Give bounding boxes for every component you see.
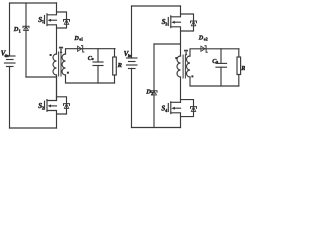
primary dot	[175, 57, 177, 59]
primary dot	[50, 54, 52, 56]
wire top rail left circuit	[10, 2, 57, 4]
svg-text:T: T	[59, 45, 63, 55]
svg-text:2: 2	[151, 91, 153, 96]
wire secondary top lead	[190, 49, 239, 56]
transistor S2 (MOSFET)	[45, 77, 57, 128]
wire left vertical right circuit (Vin- lead)	[131, 69, 133, 128]
wire primary bottom to S4 drain	[180, 77, 182, 102]
wire clamp branch vertical (top)	[25, 3, 27, 77]
svg-text:T: T	[184, 48, 188, 57]
label T (left)	[59, 45, 63, 55]
label Co2	[212, 58, 218, 65]
source Vin battery (left)	[5, 56, 16, 67]
secondary winding	[187, 56, 191, 77]
svg-text:o2: o2	[204, 38, 208, 42]
wire clamp diode to primary bottom	[26, 76, 57, 78]
resistor R (left load)	[113, 49, 117, 83]
diode body diode of S1	[57, 12, 70, 28]
diode D1	[23, 26, 29, 30]
diode Do1	[78, 46, 84, 52]
label Do2	[198, 35, 208, 42]
wire bottom rail left circuit	[10, 127, 57, 129]
source Vin battery (right)	[127, 58, 138, 69]
svg-text:4: 4	[165, 108, 168, 113]
label Co1	[88, 55, 94, 62]
transistor S1 (MOSFET)	[45, 3, 57, 54]
label D2	[145, 89, 153, 96]
capacitor Co2	[216, 49, 227, 86]
label S4	[161, 105, 168, 113]
diode body diode of S4	[181, 100, 197, 117]
svg-text:2: 2	[42, 106, 44, 111]
transistor S3 (MOSFET)	[168, 6, 180, 56]
svg-text:R: R	[240, 65, 245, 72]
primary winding	[177, 56, 181, 77]
label R (left)	[117, 62, 123, 69]
secondary dot	[67, 72, 69, 74]
wire left vertical (Vin- lead)	[9, 67, 11, 129]
wire left vertical (Vin+ lead)	[9, 3, 11, 56]
wire output bottom rail (right)	[190, 77, 239, 86]
svg-text:1: 1	[19, 28, 21, 33]
transformer T (left)	[50, 52, 69, 76]
svg-text:R: R	[117, 62, 123, 69]
svg-text:o1: o1	[79, 38, 83, 42]
core lines	[182, 55, 184, 78]
wire primary bottom to S2 drain	[56, 75, 58, 101]
diode body diode of S3	[181, 14, 197, 31]
label R (right)	[240, 65, 246, 72]
capacitor Co1	[93, 49, 103, 83]
resistor R (right load)	[237, 49, 241, 86]
wire output bottom rail (left)	[66, 75, 115, 83]
svg-text:o: o	[92, 57, 94, 61]
primary winding	[53, 54, 56, 75]
diode Do2	[201, 46, 207, 52]
svg-text:3: 3	[165, 21, 167, 26]
transistor S4 (MOSFET)	[168, 102, 180, 128]
label Vin (left)	[1, 50, 9, 59]
svg-text:o: o	[216, 60, 218, 64]
secondary dot	[191, 75, 193, 77]
diode body diode of S2	[57, 97, 70, 114]
core lines	[58, 52, 60, 76]
label Vin (right)	[124, 50, 132, 58]
wire secondary top lead	[66, 49, 116, 54]
svg-text:1: 1	[42, 19, 44, 24]
secondary winding	[62, 54, 66, 75]
wire bottom rail right circuit	[132, 127, 181, 129]
label Do1	[73, 35, 83, 42]
label T (right)	[184, 48, 188, 57]
diode D2	[151, 91, 157, 95]
label S1	[38, 16, 44, 24]
label S3	[162, 18, 168, 26]
transformer T (right)	[175, 55, 193, 78]
wire clamp branch vertical (bottom)	[153, 44, 155, 128]
wire top rail right circuit	[132, 5, 181, 7]
wire left vertical right circuit (Vin+ lead)	[131, 6, 133, 58]
wire clamp branch horizontal (right)	[154, 43, 181, 45]
label S2	[38, 102, 44, 110]
label D1	[13, 26, 21, 33]
